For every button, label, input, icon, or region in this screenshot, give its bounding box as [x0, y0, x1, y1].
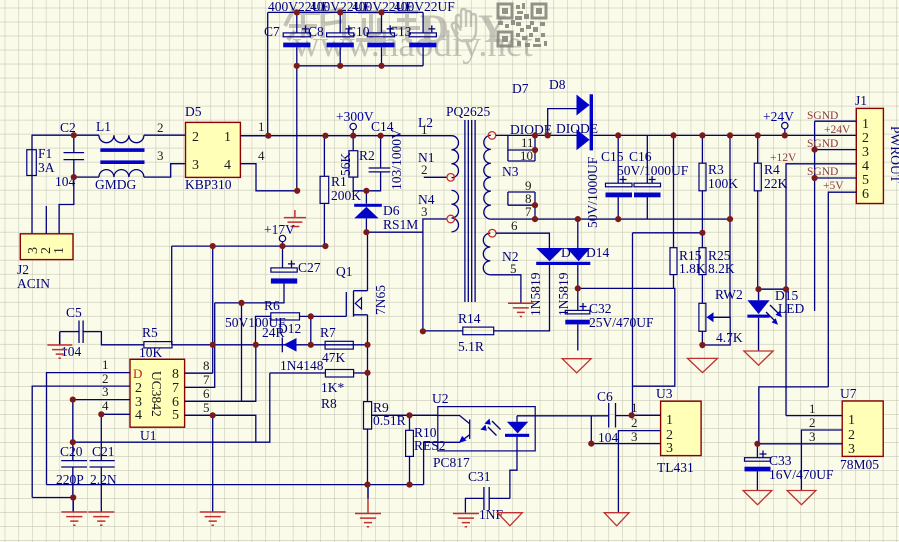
svg-text:8.2K: 8.2K	[708, 261, 735, 276]
svg-text:KBP310: KBP310	[185, 177, 232, 192]
wire pin2 bottom link	[32, 497, 73, 499]
bridge rectifier D5 KBP310	[185, 104, 240, 192]
wire J1 pin4 +12V	[786, 164, 856, 416]
capacitor C14 103/1000V	[366, 119, 404, 191]
wire U1 pin5 right	[185, 415, 256, 442]
svg-text:C33: C33	[769, 453, 792, 468]
wire U1 pin7 right	[185, 303, 215, 388]
ground source (earth bars)	[355, 485, 381, 527]
power port +300V	[336, 109, 374, 136]
svg-text:GMDG: GMDG	[95, 177, 137, 192]
resistor R2 56K	[338, 136, 375, 191]
red earth mark near +17V	[284, 210, 306, 227]
svg-text:Q1: Q1	[336, 264, 353, 279]
wire U7 pin2 to ground	[801, 430, 842, 491]
svg-text:3: 3	[421, 204, 428, 219]
resistor R15 1.8K	[670, 135, 706, 288]
wire SGND-RW2 column	[729, 135, 731, 317]
svg-text:3: 3	[157, 148, 164, 163]
wire N3 top to D7/D8	[496, 134, 577, 136]
wire D14 left out to R14	[494, 265, 550, 331]
capacitor C27 50V100UF	[215, 246, 321, 303]
svg-text:1K*: 1K*	[321, 380, 344, 395]
svg-text:1: 1	[848, 413, 855, 428]
svg-text:LED: LED	[778, 301, 804, 316]
cap bank bottom rail	[297, 65, 423, 67]
resistor R8 1K*	[270, 370, 368, 412]
power port +24V	[763, 109, 794, 135]
svg-text:C13: C13	[389, 24, 412, 39]
svg-text:C8: C8	[308, 24, 324, 39]
svg-text:3: 3	[848, 442, 855, 457]
resistor R5 10K	[139, 325, 172, 360]
capacitor C13 400V22UF	[389, 0, 455, 66]
+17V rail	[172, 245, 326, 247]
svg-text:C32: C32	[589, 301, 612, 316]
wire J1 pin3 SGND	[815, 149, 857, 151]
svg-text:SGND: SGND	[807, 166, 838, 178]
svg-text:+17V: +17V	[264, 222, 295, 237]
wire sense to opto	[372, 414, 438, 416]
svg-text:R3: R3	[708, 162, 724, 177]
capacitor C8 400V22UF	[308, 0, 371, 66]
transformer secondary winding N3	[484, 135, 519, 219]
watermark DIY	[420, 6, 507, 51]
wire D14 right out	[577, 265, 579, 288]
svg-text:D: D	[133, 366, 142, 381]
svg-text:104: 104	[598, 430, 619, 445]
resistor R14 5.1R	[423, 311, 494, 354]
wire U3 pin3	[590, 443, 661, 445]
wire R15 bottom to -12V node	[578, 288, 675, 386]
transformer primary winding N4	[418, 190, 459, 231]
inductor L1 common-mode choke	[95, 119, 145, 192]
wire D14 right top	[577, 219, 579, 248]
svg-text:1.8K: 1.8K	[679, 261, 706, 276]
transformer secondary winding N2	[483, 233, 518, 276]
capacitor C20 220P	[56, 400, 87, 498]
svg-text:2: 2	[848, 428, 855, 443]
ground C21 (earth bars)	[88, 512, 114, 525]
resistor R4 22K	[754, 135, 787, 289]
main +300V rail	[240, 135, 452, 137]
svg-text:U1: U1	[140, 428, 157, 443]
svg-text:C21: C21	[92, 444, 115, 459]
capacitor C5 104	[60, 305, 144, 359]
svg-text:+300V: +300V	[336, 109, 374, 124]
ground rail bottom	[47, 484, 424, 486]
wire J1 pin5 SGND	[815, 177, 857, 179]
wire feedback column	[632, 233, 634, 415]
svg-text:D12: D12	[278, 321, 301, 336]
resistor R1 200K	[320, 136, 361, 246]
svg-text:1N5819: 1N5819	[528, 272, 543, 316]
svg-text:4: 4	[135, 408, 142, 423]
svg-text:2: 2	[192, 130, 199, 145]
svg-text:103/1000V: 103/1000V	[389, 129, 404, 190]
wire cap bank gnd drop	[296, 66, 298, 191]
wire U7 pin3 / +5V node	[757, 444, 842, 458]
wire J2 pin2 stub	[45, 206, 47, 234]
svg-text:U3: U3	[656, 386, 673, 401]
svg-text:+24V: +24V	[763, 109, 794, 124]
wire U3 pin2 to ground	[618, 431, 660, 513]
svg-text:+24V: +24V	[824, 124, 851, 136]
wire N2 top to D14	[496, 233, 549, 248]
diode D12 1N4148	[278, 321, 324, 373]
wire U1 pin6 right	[185, 345, 256, 402]
wire U1 pin8 right	[185, 372, 213, 374]
svg-text:F1: F1	[38, 146, 52, 161]
svg-text:2: 2	[421, 162, 428, 177]
svg-text:5: 5	[862, 173, 869, 188]
resistor R10 RES2	[406, 415, 446, 484]
wire J1 pin1 SGND	[815, 120, 857, 122]
wire U1 pin3 left	[73, 399, 130, 401]
svg-text:3: 3	[666, 441, 673, 456]
resistor R6 24R	[225, 298, 311, 345]
connector J2 ACIN	[17, 234, 73, 291]
svg-text:PC817: PC817	[433, 455, 470, 470]
svg-text:5: 5	[510, 261, 517, 276]
wire U1 pin6 drive column	[241, 303, 243, 401]
resistor R25 8.2K	[699, 233, 735, 304]
wire AC top	[32, 134, 99, 136]
resistor R9 0.51R	[364, 345, 406, 485]
ground RW2 (triangle)	[688, 358, 718, 372]
svg-text:1: 1	[224, 130, 231, 145]
power port +17V	[264, 222, 295, 246]
svg-text:6: 6	[511, 218, 518, 233]
watermark QR code	[498, 3, 547, 47]
svg-text:10K: 10K	[139, 345, 163, 360]
fuse F1	[27, 135, 55, 234]
wire D5 pin4 out	[240, 164, 297, 191]
svg-text:PQ2625: PQ2625	[446, 104, 491, 119]
svg-text:1: 1	[52, 247, 67, 254]
svg-text:PWROUT: PWROUT	[888, 126, 899, 184]
connector J1 PWROUT	[855, 93, 899, 204]
svg-text:C31: C31	[468, 469, 491, 484]
svg-text:R14: R14	[458, 311, 481, 326]
wire feedback tap	[633, 232, 703, 234]
svg-text:SGND: SGND	[807, 138, 838, 150]
wire +17V rail left drop to R5	[171, 246, 173, 345]
svg-text:7: 7	[525, 204, 532, 219]
wire R6 right to gate	[310, 316, 312, 344]
svg-text:5: 5	[203, 400, 210, 415]
diode D8	[549, 77, 598, 150]
capacitor C32 25V/470UF	[565, 288, 654, 350]
svg-text:R2: R2	[359, 148, 375, 163]
svg-text:22K: 22K	[764, 176, 788, 191]
capacitor C21 2.2N	[90, 414, 117, 511]
svg-text:U7: U7	[840, 386, 857, 401]
svg-text:100K: 100K	[708, 176, 738, 191]
svg-text:D6: D6	[383, 203, 400, 218]
svg-text:6: 6	[203, 386, 210, 401]
svg-text:56K: 56K	[338, 153, 353, 177]
capacitor C15 50V/1000UF	[585, 135, 632, 228]
svg-text:ACIN: ACIN	[17, 276, 50, 291]
capacitor C10 400V22UF	[347, 0, 413, 66]
wire J1 pin6 +5V	[828, 192, 856, 387]
svg-text:1: 1	[809, 401, 816, 416]
wire feedback long run	[73, 373, 270, 442]
capacitor C16 50V/1000UF	[617, 135, 689, 219]
svg-text:3: 3	[862, 145, 869, 160]
IC U7 78M05	[840, 386, 883, 472]
svg-text:U2: U2	[432, 391, 449, 406]
diode D6 RS1M	[354, 191, 418, 232]
svg-text:1: 1	[258, 119, 265, 134]
svg-text:4: 4	[862, 159, 869, 174]
svg-text:TL431: TL431	[657, 460, 694, 475]
svg-text:7: 7	[172, 381, 179, 396]
svg-text:5: 5	[172, 408, 179, 423]
svg-text:R7: R7	[320, 325, 336, 340]
ground U1 pin5 (earth bars)	[200, 512, 226, 525]
svg-text:R5: R5	[142, 325, 158, 340]
wire pin2 stub	[424, 176, 447, 178]
svg-text:104: 104	[61, 344, 82, 359]
svg-text:D8: D8	[549, 77, 566, 92]
ground N2 pin5 (earth bars)	[508, 303, 534, 316]
ground C31 left (earth bars)	[453, 514, 479, 527]
IC U1 UC3842	[130, 359, 185, 443]
SGND rail pin6	[491, 218, 730, 220]
svg-text:4: 4	[224, 158, 231, 173]
cap bank top rail	[268, 11, 423, 13]
svg-text:7: 7	[203, 372, 210, 387]
wire N3 pins 11/10	[508, 135, 535, 193]
wire L1 pin2 to D5	[144, 134, 186, 136]
svg-text:2: 2	[157, 120, 164, 135]
wire pin3 column to R14	[422, 232, 424, 331]
svg-text:3: 3	[192, 158, 199, 173]
svg-text:400V22UF: 400V22UF	[394, 0, 455, 14]
svg-text:D5: D5	[185, 104, 202, 119]
svg-text:1: 1	[421, 122, 428, 137]
capacitor C6 104	[597, 389, 632, 445]
LED D15	[747, 288, 804, 351]
svg-text:1: 1	[666, 413, 673, 428]
svg-text:C6: C6	[597, 389, 613, 404]
wire U2 emitter to ground	[424, 442, 438, 484]
capacitor C31 1NF	[465, 469, 510, 522]
svg-text:R8: R8	[321, 396, 337, 411]
svg-text:+12V: +12V	[770, 152, 797, 164]
wire U1 pin1 left	[47, 373, 131, 485]
svg-text:D: D	[561, 245, 571, 260]
svg-text:3A: 3A	[38, 160, 55, 175]
wire D5 pin1 out	[240, 135, 268, 137]
svg-text:L1: L1	[96, 119, 111, 134]
wire L1 pin3 to D5	[144, 164, 185, 177]
wire U2 cathode to C31	[510, 451, 517, 499]
capacitor C33 16V/470UF	[745, 451, 834, 491]
capacitor C7 400V22UF	[264, 0, 329, 66]
wire cap bank left drop	[267, 12, 269, 135]
ground U7 pin2 (triangle)	[787, 491, 816, 505]
transformer primary winding L2/N1	[418, 115, 459, 178]
diode pair D13/D14 1N5819	[528, 245, 609, 316]
svg-text:1N5819: 1N5819	[556, 272, 571, 316]
wire J2 pin1 to C2	[59, 177, 74, 234]
wire SGND column	[814, 121, 816, 311]
ground D15 (triangle)	[744, 351, 773, 365]
svg-text:UC3842: UC3842	[149, 371, 164, 417]
+24V rail	[593, 134, 856, 136]
wire AC bottom	[74, 176, 99, 178]
svg-text:50V/1000UF: 50V/1000UF	[617, 163, 689, 178]
diode D7	[510, 81, 590, 137]
svg-text:+5V: +5V	[823, 180, 844, 192]
watermark hand glyph	[452, 9, 476, 41]
svg-text:1N4148: 1N4148	[280, 358, 324, 373]
wire U2 LED anode run	[517, 415, 609, 417]
svg-text:C16: C16	[629, 149, 652, 164]
svg-text:DIODE: DIODE	[556, 121, 598, 136]
svg-text:2: 2	[862, 131, 869, 146]
svg-text:SGND: SGND	[807, 110, 838, 122]
svg-text:2: 2	[809, 415, 816, 430]
svg-text:4: 4	[102, 398, 109, 413]
IC U3 TL431	[656, 386, 701, 475]
wire +5V link	[759, 387, 829, 444]
gate drive rail	[172, 344, 368, 346]
svg-text:N3: N3	[502, 164, 519, 179]
svg-text:47K: 47K	[322, 350, 346, 365]
ground C31 right (triangle)	[497, 513, 522, 526]
optocoupler U2 PC817	[432, 391, 535, 470]
ground C20 (earth bars)	[61, 498, 87, 526]
svg-text:4: 4	[258, 148, 265, 163]
wire anode branch to U3 pin3	[590, 416, 592, 444]
svg-text:4.7K: 4.7K	[716, 330, 743, 345]
svg-text:25V/470UF: 25V/470UF	[589, 315, 654, 330]
svg-text:1: 1	[862, 117, 869, 132]
wire U1 pin8/VCC column	[212, 246, 214, 373]
MOSFET Q1 7N65	[311, 232, 388, 345]
ground U3 pin2 (triangle)	[604, 513, 629, 526]
svg-text:C10: C10	[347, 24, 370, 39]
svg-text:C20: C20	[60, 444, 83, 459]
svg-text:C5: C5	[66, 305, 82, 320]
svg-text:7N65: 7N65	[373, 285, 388, 315]
svg-text:8: 8	[203, 358, 210, 373]
svg-text:J1: J1	[855, 93, 867, 108]
svg-text:R6: R6	[264, 298, 280, 313]
wire U1 pin4 left	[101, 413, 130, 415]
svg-text:78M05: 78M05	[840, 457, 879, 472]
svg-text:C27: C27	[298, 260, 321, 275]
potentiometer RW2 4.7K	[699, 287, 743, 348]
svg-text:1: 1	[102, 357, 109, 372]
svg-text:R4: R4	[764, 162, 780, 177]
wire N3 pins 8/7	[508, 191, 535, 219]
svg-text:C7: C7	[264, 24, 280, 39]
transformer PQ2625 core	[465, 120, 475, 302]
ground C5 (earth bars)	[47, 332, 72, 359]
resistor R7 47K	[320, 325, 353, 365]
svg-text:D14: D14	[586, 245, 609, 260]
svg-text:50V/1000UF: 50V/1000UF	[585, 156, 600, 228]
svg-text:6: 6	[862, 187, 869, 202]
svg-text:3: 3	[102, 384, 109, 399]
svg-text:C15: C15	[601, 149, 624, 164]
wire U1 pin5 ground column	[212, 415, 214, 512]
svg-text:3: 3	[631, 429, 638, 444]
wire N2 pin5 to ground	[490, 275, 521, 304]
svg-text:J2: J2	[17, 262, 29, 277]
svg-text:5.1R: 5.1R	[458, 339, 484, 354]
wire U7 pin1	[786, 415, 842, 417]
wire pin3 to drain node	[366, 219, 447, 232]
wire U3 pin1	[632, 414, 661, 416]
watermark chinese chars (simulated glyph blocks)	[285, 8, 420, 41]
wire D15 anode to +12V	[759, 288, 787, 290]
svg-text:8: 8	[172, 367, 179, 382]
resistor R3 100K	[699, 135, 738, 232]
ground C32 (triangle)	[562, 359, 591, 373]
svg-text:10: 10	[520, 148, 533, 163]
svg-text:RS1M: RS1M	[383, 217, 418, 232]
wire U1 pin2 left	[32, 386, 130, 497]
svg-text:2: 2	[135, 381, 142, 396]
capacitor C2	[55, 120, 84, 189]
svg-text:RW2: RW2	[715, 287, 743, 302]
svg-text:D7: D7	[512, 81, 529, 96]
svg-text:16V/470UF: 16V/470UF	[769, 467, 834, 482]
ground C33 (triangle)	[743, 491, 772, 505]
svg-text:3: 3	[809, 429, 816, 444]
